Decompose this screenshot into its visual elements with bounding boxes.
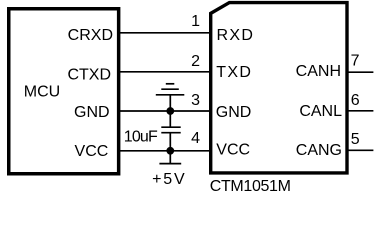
capacitor 10uF (161, 111, 180, 151)
svg-text:CANL: CANL (299, 103, 342, 120)
svg-text:RXD: RXD (217, 27, 255, 44)
svg-text:6: 6 (351, 92, 360, 109)
svg-text:CANG: CANG (296, 142, 342, 159)
svg-text:CTM1051M: CTM1051M (210, 178, 291, 195)
svg-text:TXD: TXD (216, 64, 252, 81)
wire pin 7 CANH stub (347, 71, 373, 73)
svg-text:VCC: VCC (216, 142, 250, 159)
MCU box (9, 9, 119, 174)
wire GND net (119, 110, 211, 112)
svg-text:4: 4 (191, 130, 200, 147)
svg-text:CRXD: CRXD (68, 27, 113, 44)
junction dot GND node (166, 107, 174, 115)
wire CTXD to TXD (119, 71, 211, 73)
wire VCC net (119, 150, 211, 152)
svg-text:1: 1 (191, 13, 200, 30)
svg-text:GND: GND (216, 104, 252, 121)
+5V supply symbol (159, 151, 181, 164)
CTM1051M chip outline U1 (211, 3, 347, 173)
svg-text:3: 3 (191, 92, 200, 109)
svg-text:CTXD: CTXD (67, 66, 111, 83)
svg-text:7: 7 (351, 53, 360, 70)
svg-text:GND: GND (74, 104, 110, 121)
wire CRXD to RXD (119, 32, 211, 34)
svg-text:MCU: MCU (24, 84, 60, 101)
svg-text:2: 2 (191, 53, 200, 70)
junction dot VCC node (166, 147, 174, 155)
svg-text:10uF: 10uF (124, 128, 158, 145)
svg-text:5: 5 (351, 131, 360, 148)
ground symbol (156, 84, 185, 111)
svg-text:VCC: VCC (75, 143, 109, 160)
wire pin 5 CANG stub (347, 149, 373, 151)
svg-text:CANH: CANH (296, 63, 341, 80)
wire pin 6 CANL stub (347, 110, 373, 112)
svg-text:+5V: +5V (152, 171, 186, 188)
